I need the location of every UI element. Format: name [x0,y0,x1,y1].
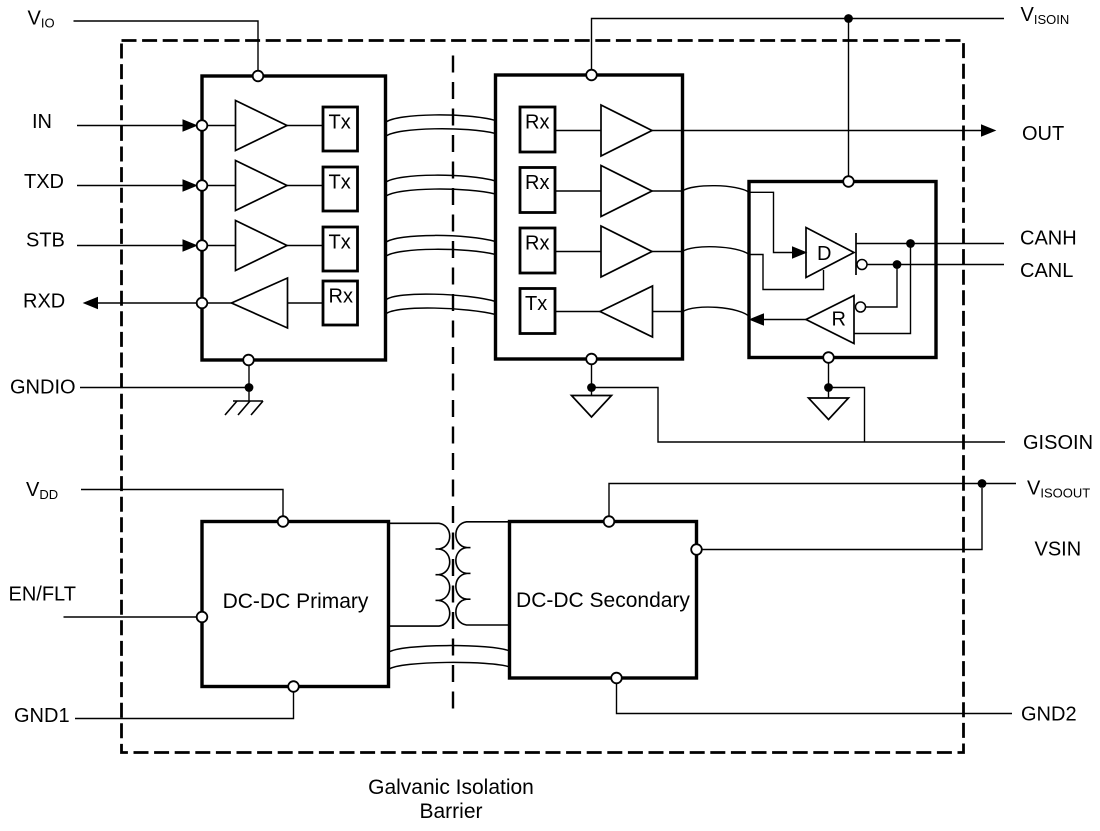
svg-text:Tx: Tx [525,293,547,315]
svg-text:D: D [817,243,831,265]
svg-text:DC-DC Primary: DC-DC Primary [223,590,369,613]
svg-text:CANH: CANH [1020,228,1077,250]
svg-text:OUT: OUT [1022,123,1064,145]
svg-text:TXD: TXD [24,171,64,193]
svg-text:Galvanic Isolation: Galvanic Isolation [368,776,534,799]
svg-text:R: R [832,309,846,331]
svg-text:VSIN: VSIN [1035,539,1082,561]
svg-text:CANL: CANL [1020,260,1073,282]
svg-text:Tx: Tx [329,172,351,194]
svg-text:Rx: Rx [525,172,549,194]
svg-text:Rx: Rx [525,233,549,255]
svg-text:GISOIN: GISOIN [1023,432,1093,454]
svg-text:STB: STB [26,230,65,252]
svg-text:Barrier: Barrier [419,800,482,823]
svg-text:Rx: Rx [525,112,549,134]
svg-text:GNDIO: GNDIO [10,377,76,399]
svg-text:EN/FLT: EN/FLT [9,584,76,606]
svg-text:Tx: Tx [329,232,351,254]
svg-text:DC-DC Secondary: DC-DC Secondary [516,589,690,612]
svg-text:GND1: GND1 [14,705,70,727]
svg-text:GND2: GND2 [1021,704,1077,726]
svg-text:RXD: RXD [23,291,65,313]
svg-text:Tx: Tx [329,112,351,134]
svg-text:IN: IN [32,111,52,133]
svg-text:Rx: Rx [329,286,353,308]
